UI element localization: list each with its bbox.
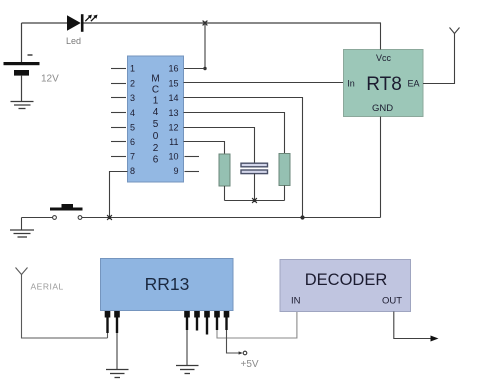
RR13 pin 7 [224,311,230,330]
node pin16 corner [203,67,206,70]
svg-text:11: 11 [169,137,178,147]
LED light arrow 2 [91,15,98,22]
wire decoder OUT with arrow [394,312,439,342]
svg-text:6: 6 [153,155,159,166]
svg-text:GND: GND [372,103,393,114]
aerial antenna [16,268,108,339]
IC U1 left pin stubs 1-7 [111,69,126,157]
antenna (transmitter) [450,28,460,34]
svg-text:8: 8 [130,166,135,176]
wire pin12 to C1 [184,128,255,164]
wire C1 bottom [254,174,256,201]
wire top rail left segment [22,22,68,24]
IC U1 right pin numbers 16-9 [168,64,178,177]
svg-text:12: 12 [168,123,178,133]
RR13 pin 6 [214,311,220,330]
wire pin16 [184,68,206,70]
wire pin14 to ground rail [184,98,303,218]
resistor R1 [219,154,230,186]
IC U1 left pin numbers 1-8 [130,64,135,177]
svg-text:16: 16 [168,64,178,74]
+5V terminal [243,351,247,355]
svg-text:OUT: OUT [382,296,402,307]
resistor R2 [279,154,290,186]
wire resonator bottom connector [225,200,285,202]
svg-text:5: 5 [130,123,135,133]
battery B1 12V [4,55,40,76]
wire button ground drop [21,218,23,231]
RR13 module U3 body [101,259,234,311]
wire pin15 to RT8 In [184,82,344,84]
DECODER module U4 body [280,260,411,312]
RR13 pin 4 [194,311,200,331]
svg-text:5: 5 [153,119,159,130]
RR13 pin 2 [114,311,120,333]
RT8 module U2 body [344,50,424,117]
svg-text:EA: EA [407,79,419,89]
svg-text:7: 7 [130,152,135,162]
push button S1 [50,204,83,219]
svg-text:RR13: RR13 [145,274,190,294]
svg-text:6: 6 [130,137,135,147]
wire pin8 [110,172,128,218]
LED light arrow 1 [85,15,92,22]
node junction pin14-rail [300,215,304,219]
svg-text:AERIAL: AERIAL [31,282,64,292]
wire ground rail [82,217,381,219]
wire pin1 to aerial [107,333,109,338]
svg-text:10: 10 [168,152,178,162]
svg-text:IN: IN [291,296,301,307]
wire pin16 riser [204,23,206,69]
wire pin2 ground drop [116,333,118,370]
wire pin11 to R1 [184,142,225,155]
svg-text:1: 1 [153,96,159,107]
wire R2 bottom [284,186,286,201]
ground (RR13 pin2) [106,370,129,378]
node junction on top rail [203,21,208,26]
node junction resonator [252,198,257,203]
RR13 pin 1 [105,311,111,333]
wire top rail right segment [83,22,381,24]
ground (RR13 pin3) [176,366,199,374]
IC U1 MC145026 body [128,56,184,182]
RR13 pin 5 [204,311,210,335]
ground (battery) [11,102,34,109]
IC U1 vertical label MC145026 [151,74,159,166]
svg-text:Led: Led [66,36,81,46]
node junction pin8-rail [107,215,112,220]
wire pin6 to decoder IN [217,312,297,339]
capacitor C1 [241,163,268,173]
svg-text:C: C [152,85,159,96]
ground (button) [10,230,34,237]
battery B1 wire bottom [21,76,23,102]
svg-text:4: 4 [130,108,135,118]
svg-text:2: 2 [153,143,159,154]
svg-text:0: 0 [153,131,159,142]
svg-text:1: 1 [130,64,135,74]
svg-text:DECODER: DECODER [305,271,388,289]
svg-text:13: 13 [168,108,178,118]
svg-text:+5V: +5V [241,359,259,370]
svg-text:3: 3 [130,93,135,103]
svg-text:2: 2 [130,79,135,89]
wire Vcc riser [380,23,382,50]
svg-text:RT8: RT8 [366,74,402,95]
svg-text:9: 9 [173,166,178,176]
wire EA to antenna [423,34,455,84]
IC U1 right pin stubs 10,9 [185,157,200,172]
wire GND drop [380,117,382,218]
svg-text:15: 15 [168,79,178,89]
svg-text:14: 14 [168,93,178,103]
LED D1 [67,14,82,32]
wire pin7 to +5V [227,330,240,353]
wire button left [22,217,53,219]
wire pin13 to R2 [184,113,285,154]
svg-text:M: M [151,74,159,85]
svg-text:4: 4 [153,107,159,118]
svg-text:In: In [347,79,355,89]
wire R1 bottom [224,186,226,201]
wire pin3 ground drop [186,330,188,366]
RR13 pin 3 [184,311,190,330]
svg-text:Vcc: Vcc [376,53,392,63]
battery B1 wire top [21,23,23,62]
svg-text:12V: 12V [41,74,59,85]
